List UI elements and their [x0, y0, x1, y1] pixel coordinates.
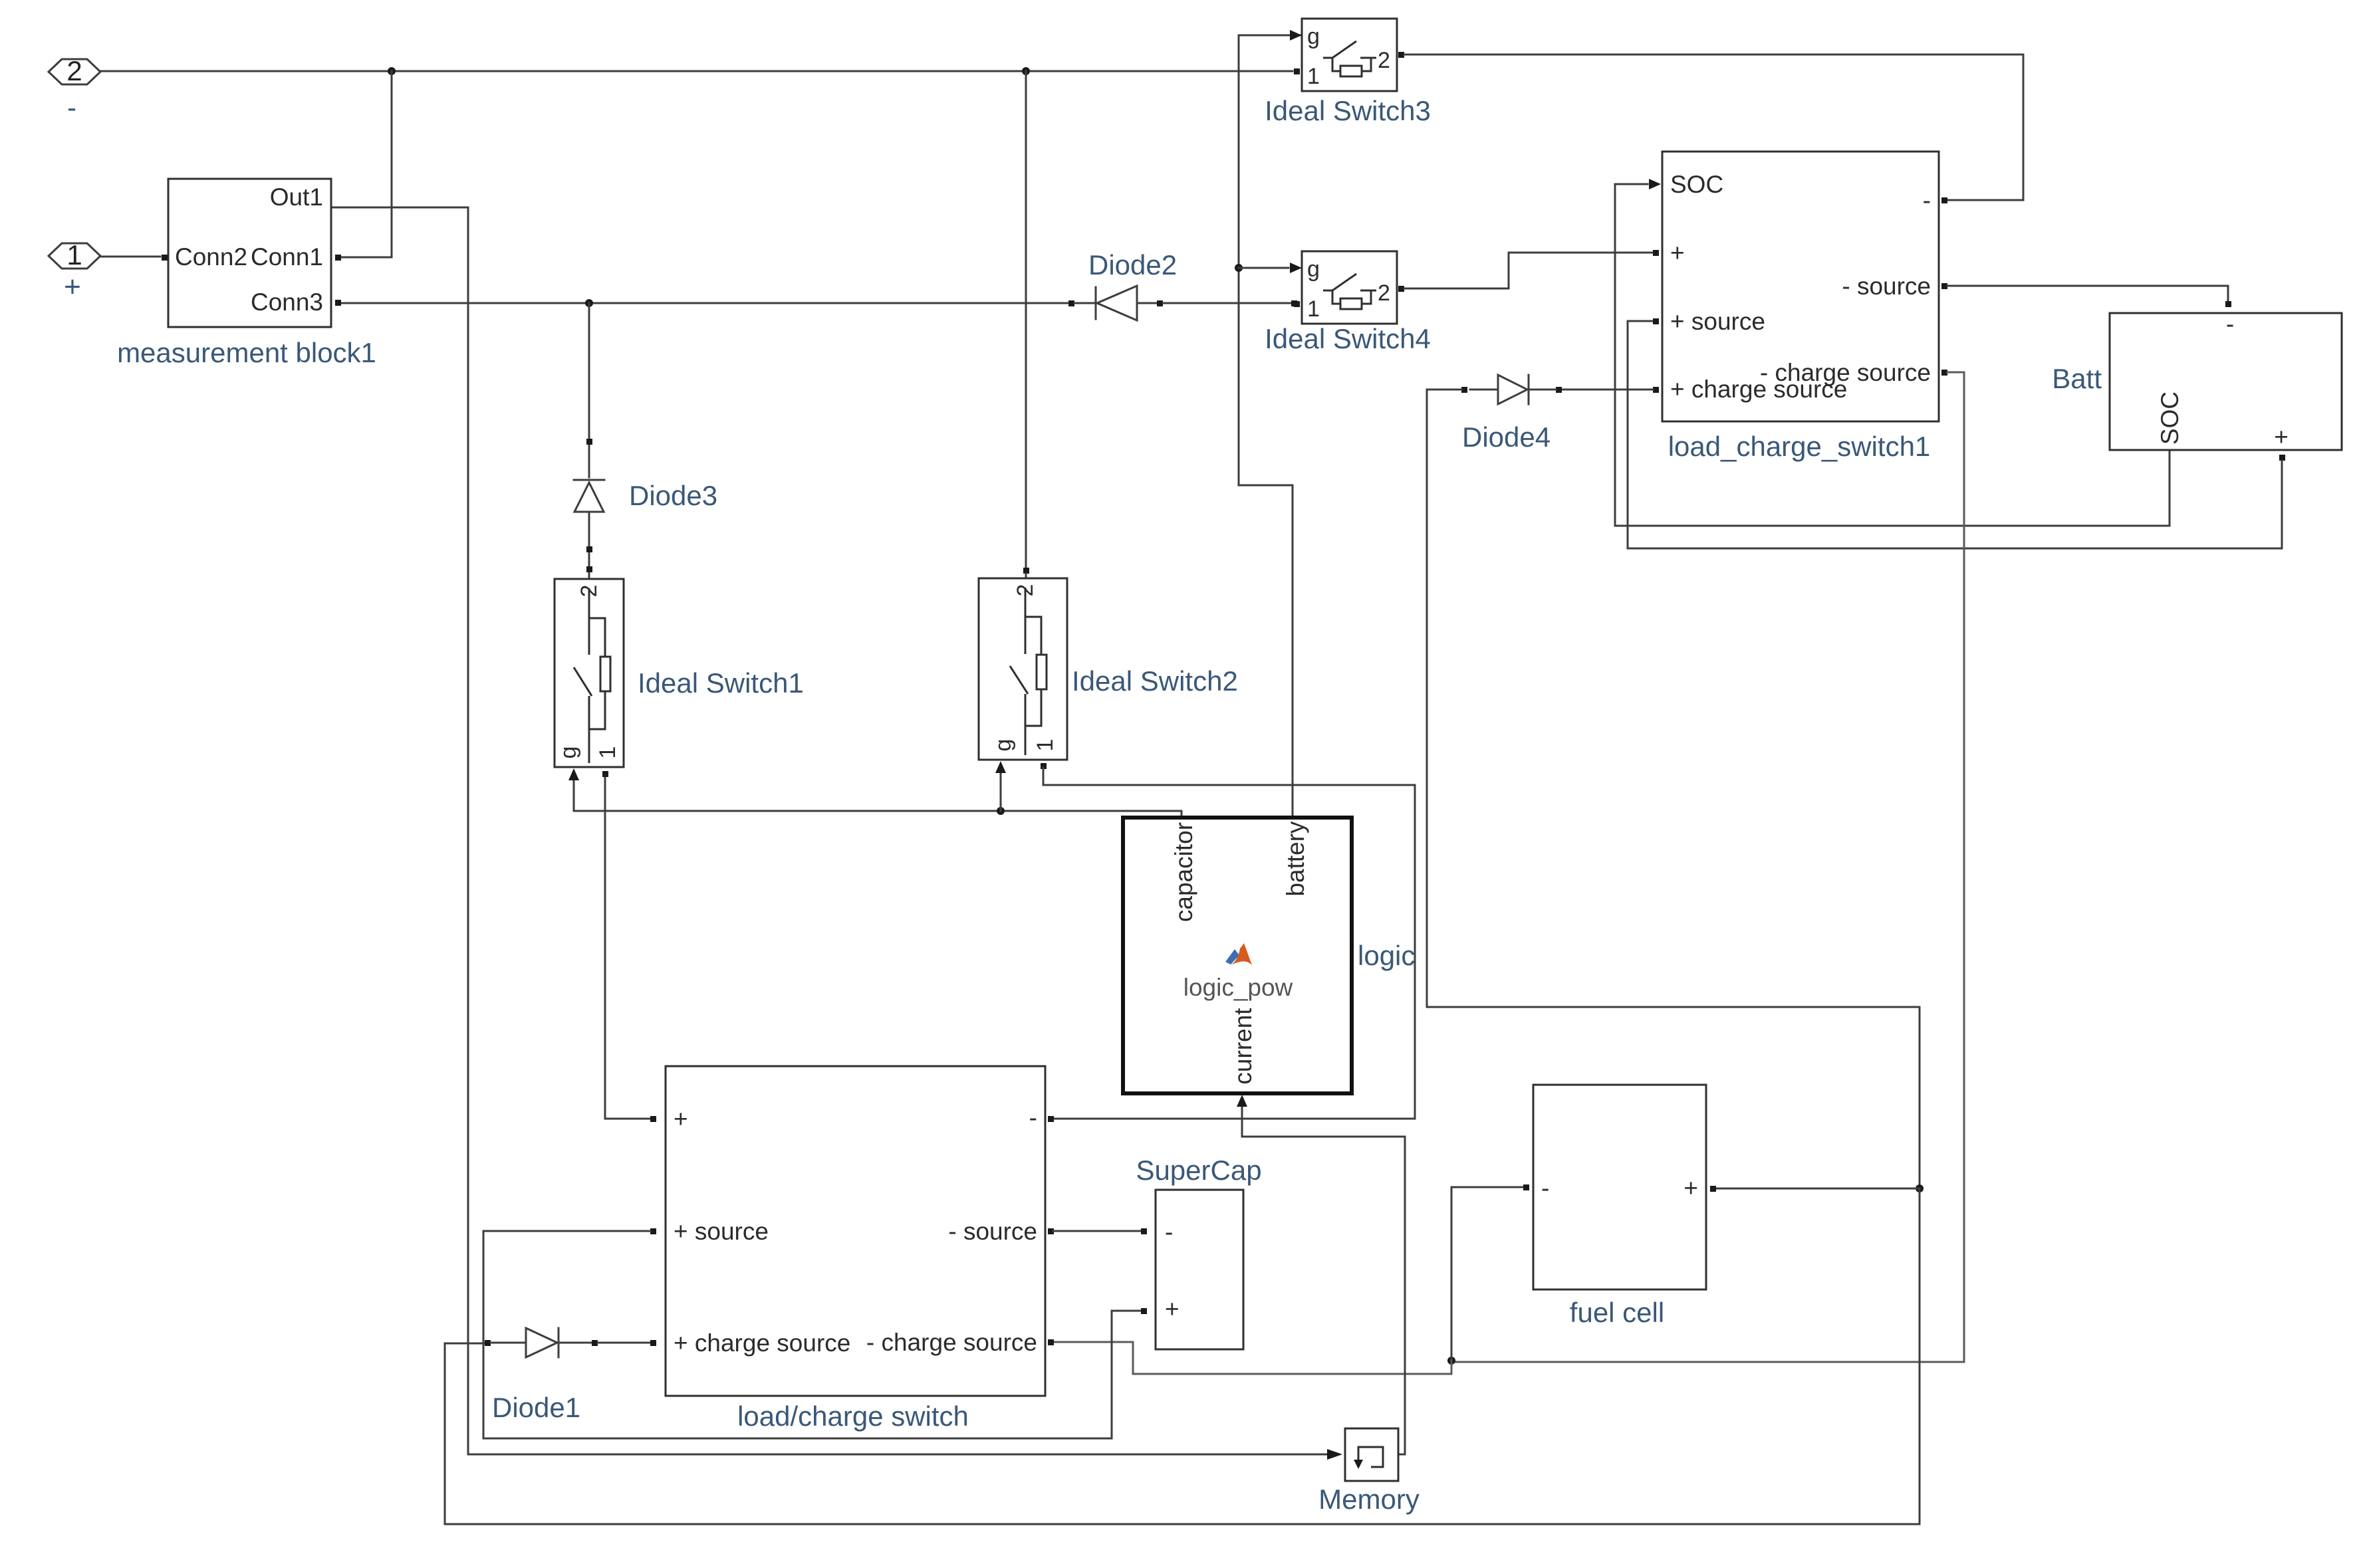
wire: riser to Conn1	[340, 71, 392, 257]
label: Ideal Switch4	[1265, 323, 1431, 354]
svg-text:measurement block1: measurement block1	[117, 337, 376, 368]
wire: Diode4 anode to fuel cell + junction	[1427, 390, 1920, 1188]
block: Batt	[2110, 301, 2342, 451]
svg-text:Ideal Switch3: Ideal Switch3	[1265, 95, 1431, 126]
wire: load_charge_switch1 +charge source via Diode4 to fuel cell +	[1556, 387, 1659, 393]
block: measurement block1	[162, 179, 341, 327]
svg-text:- charge source: - charge source	[866, 1329, 1037, 1356]
switch U1 (Ideal Switch1)	[555, 579, 624, 767]
wire: Out1 down-right to Memory input	[331, 207, 1327, 1454]
svg-text:-: -	[1165, 1218, 1173, 1246]
svg-text:+: +	[674, 1105, 688, 1133]
node: junction battery bus / Ideal Switch4 g	[1235, 264, 1243, 272]
wire: fuel cell - to its port	[1523, 1184, 1529, 1190]
wire: junction left to fuel cell +	[1710, 1186, 1920, 1192]
block: load_charge_switch1	[1662, 152, 1939, 421]
svg-text:+: +	[2274, 423, 2289, 451]
block: Memory	[1345, 1428, 1398, 1481]
wire: Ideal Switch4 out to load_charge_switch1 +	[1398, 250, 1659, 292]
svg-text:Ideal Switch2: Ideal Switch2	[1072, 665, 1238, 697]
svg-text:-: -	[67, 92, 76, 123]
svg-text:g: g	[1307, 257, 1320, 282]
svg-text:+ source: + source	[1670, 308, 1765, 335]
svg-text:logic: logic	[1358, 940, 1415, 971]
svg-text:Memory: Memory	[1318, 1484, 1420, 1515]
wire: Ideal Switch1 port1 down to load/charge switch +	[602, 771, 656, 1122]
svg-text:+ charge source: + charge source	[674, 1329, 850, 1357]
svg-text:Diode1: Diode1	[492, 1392, 580, 1423]
label: Diode2	[1088, 249, 1177, 280]
wire: port1 hexagon to Conn2	[101, 256, 160, 258]
label: fuel cell	[1570, 1297, 1664, 1328]
wire: Memory output up-left into logic current input	[1237, 1095, 1405, 1454]
svg-text:- source: - source	[948, 1218, 1037, 1245]
arrow: into Memory input	[1327, 1449, 1342, 1460]
wire: Ideal Switch3 out to load_charge_switch1 -	[1398, 52, 2023, 203]
switch U2 (Ideal Switch2)	[979, 578, 1067, 760]
wire: junction to load/charge switch -charge source	[1048, 1339, 1451, 1374]
switch U4 (Ideal Switch4)	[1294, 251, 1397, 324]
svg-text:1: 1	[595, 746, 620, 759]
block: SuperCap	[1156, 1190, 1243, 1349]
svg-text:2: 2	[576, 585, 602, 598]
label: Diode4	[1462, 421, 1551, 453]
svg-text:1: 1	[66, 239, 82, 271]
svg-text:logic_pow: logic_pow	[1183, 974, 1293, 1001]
svg-text:-: -	[1923, 187, 1931, 214]
wire: junction up to fuel cell -	[1451, 1184, 1529, 1361]
wire+arrow: gate into Ideal Switch2 g	[995, 761, 1006, 811]
svg-text:Conn3: Conn3	[251, 288, 323, 316]
svg-text:SOC: SOC	[1670, 171, 1723, 198]
label: Diode3	[629, 480, 717, 511]
node: junction Conn3 wire / Diode3 branch	[585, 299, 593, 307]
svg-text:load/charge switch: load/charge switch	[737, 1400, 969, 1432]
svg-text:+: +	[1683, 1175, 1698, 1202]
wire: riser to Ideal Switch2 port2	[1023, 71, 1029, 578]
svg-text:current: current	[1229, 1008, 1257, 1085]
wire: Conn3 to Diode2	[340, 302, 1071, 304]
arrow: battery gate into Ideal Switch3 g	[1290, 30, 1302, 41]
svg-text:capacitor: capacitor	[1170, 822, 1197, 922]
node: junction top bus / Conn1 riser	[388, 67, 396, 75]
svg-text:-: -	[2226, 310, 2234, 338]
label - (port 2 polarity)	[67, 92, 76, 123]
svg-text:Diode2: Diode2	[1088, 249, 1177, 280]
block: load/charge switch	[666, 1066, 1045, 1396]
label: Diode1	[492, 1392, 580, 1423]
label: SuperCap	[1136, 1155, 1261, 1186]
label: Ideal Switch1	[638, 667, 804, 699]
svg-text:g: g	[1307, 24, 1320, 49]
label: Batt	[2052, 363, 2102, 394]
svg-text:Ideal Switch4: Ideal Switch4	[1265, 323, 1431, 354]
svg-text:+: +	[1670, 239, 1685, 267]
svg-text:- charge source: - charge source	[1760, 359, 1931, 386]
wire: Ideal Switch2 port1 to load/charge switch - (loop around logic)	[1041, 763, 1415, 1122]
svg-text:g: g	[556, 746, 581, 759]
wire+arrow: battery gate into Ideal Switch4 g	[1239, 263, 1302, 273]
svg-text:fuel cell: fuel cell	[1570, 1297, 1664, 1328]
svg-text:+: +	[64, 271, 81, 303]
svg-text:2: 2	[1013, 584, 1038, 597]
svg-text:Conn1: Conn1	[251, 243, 323, 271]
wire+arrow: Batt SOC to load_charge_switch1 SOC	[1615, 179, 2170, 526]
diode D2 (Diode2, cathode left)	[1068, 286, 1297, 320]
svg-text:Ideal Switch1: Ideal Switch1	[638, 667, 804, 699]
node: junction fuel cell +	[1916, 1184, 1924, 1192]
wire+arrow: gate into Ideal Switch1 g	[568, 768, 579, 811]
diode D3 (Diode3, cathode up)	[574, 480, 604, 579]
svg-text:Out1: Out1	[270, 183, 323, 211]
port 1 hexagon	[49, 239, 100, 271]
svg-text:-: -	[1029, 1104, 1037, 1131]
label: Memory	[1318, 1484, 1420, 1515]
svg-text:battery: battery	[1282, 821, 1309, 897]
node: junction gate bus / Ideal Switch2 g	[997, 807, 1005, 815]
svg-text:2: 2	[1378, 48, 1390, 73]
block: fuel cell	[1533, 1085, 1706, 1289]
svg-text:SOC: SOC	[2156, 392, 2183, 445]
svg-text:Diode3: Diode3	[629, 480, 717, 511]
svg-text:1: 1	[1033, 739, 1058, 752]
wire: branch down to Diode3	[586, 303, 592, 477]
svg-text:+: +	[1165, 1295, 1180, 1323]
diode D4 (Diode4, cathode right)	[1461, 375, 1556, 404]
svg-text:1: 1	[1307, 64, 1320, 89]
svg-text:Conn2: Conn2	[175, 243, 247, 271]
wire: load/charge switch -source to SuperCap -	[1048, 1228, 1147, 1234]
svg-text:1: 1	[1307, 296, 1320, 322]
wire: capacitor gate bus (logic capacitor output)	[574, 811, 1182, 818]
label: logic	[1358, 940, 1415, 971]
label: load/charge switch	[737, 1400, 969, 1432]
node: junction negative bus / fuel cell -	[1447, 1357, 1455, 1365]
wire: port2 to Ideal Switch3 port1 (top bus)	[100, 70, 1293, 72]
svg-text:2: 2	[1378, 280, 1390, 306]
svg-text:2: 2	[66, 55, 82, 86]
svg-text:-: -	[1541, 1175, 1549, 1202]
label: Ideal Switch3	[1265, 95, 1431, 126]
svg-text:load_charge_switch1: load_charge_switch1	[1668, 431, 1931, 462]
label + (port 1 polarity)	[64, 271, 81, 303]
wire: Batt + to load_charge_switch1 +source	[1628, 318, 2285, 548]
port 2 hexagon	[49, 55, 100, 86]
wire: battery gate bus (logic battery output)	[1239, 35, 1302, 816]
switch U3 (Ideal Switch3)	[1294, 19, 1397, 91]
svg-text:Batt: Batt	[2052, 363, 2102, 394]
svg-text:SuperCap: SuperCap	[1136, 1155, 1261, 1186]
label: measurement block1	[117, 337, 376, 368]
block: logic (MATLAB function)	[1123, 818, 1352, 1093]
diode D1 (Diode1, cathode right)	[485, 1328, 656, 1357]
svg-text:- source: - source	[1842, 273, 1931, 300]
svg-text:Diode4: Diode4	[1462, 421, 1551, 453]
label: load_charge_switch1	[1668, 431, 1931, 462]
svg-text:g: g	[991, 739, 1016, 752]
svg-text:+ source: + source	[674, 1218, 769, 1245]
wire: load_charge_switch1 -source to Batt -	[1941, 283, 2231, 307]
wire: fuel cell + junction down to bottom bus to Diode1 anode	[445, 1188, 1920, 1524]
label: Ideal Switch2	[1072, 665, 1238, 697]
wire: load_charge_switch1 -charge source riser	[1451, 370, 1964, 1362]
wire: load/charge switch +source riser to SuperCap +	[483, 1228, 1147, 1438]
node: junction top bus / Ideal Switch2 riser	[1022, 67, 1030, 75]
